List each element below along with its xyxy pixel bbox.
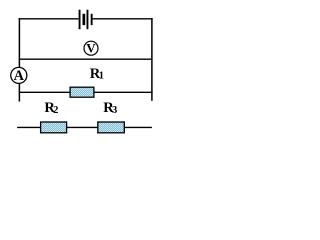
- wire R1 rung right: [94, 91, 153, 93]
- wire left vertical lower stub: [18, 84, 20, 102]
- svg-text:R3: R3: [103, 100, 117, 116]
- svg-text:R1: R1: [90, 66, 104, 82]
- svg-text:V: V: [86, 41, 96, 56]
- resistor R2: [41, 122, 67, 133]
- wire voltmeter rung: [19, 58, 152, 60]
- ammeter A: [11, 67, 27, 84]
- wire right vertical: [151, 18, 153, 101]
- wire top-left to battery: [19, 18, 79, 20]
- wire bottom left: [17, 126, 40, 128]
- wire left vertical upper: [18, 18, 20, 67]
- wire bottom middle: [67, 126, 98, 128]
- wire battery to top-right corner: [93, 18, 153, 20]
- svg-text:A: A: [14, 68, 25, 84]
- resistor R1: [70, 87, 94, 97]
- battery: [79, 10, 93, 30]
- wire bottom right: [124, 126, 152, 128]
- voltmeter V: [84, 41, 98, 56]
- resistor R3: [98, 122, 125, 133]
- svg-text:R2: R2: [44, 100, 58, 116]
- wire R1 rung left: [19, 91, 70, 93]
